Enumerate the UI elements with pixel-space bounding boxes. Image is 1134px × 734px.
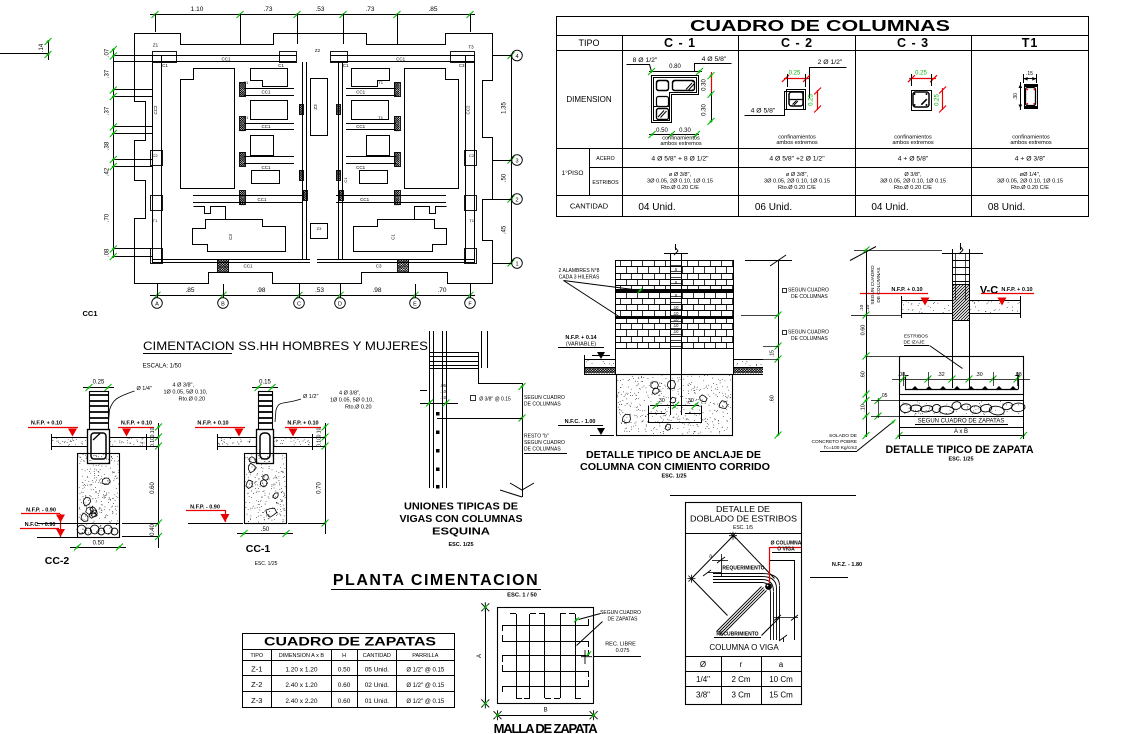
svg-text:Ø 1/2" @ 0.15: Ø 1/2" @ 0.15 — [406, 668, 445, 674]
svg-text:CC1: CC1 — [82, 309, 97, 318]
detail DETALLE TIPICO DE ZAPATA — [812, 243, 1040, 463]
svg-text:MALLA DE ZAPATA: MALLA DE ZAPATA — [494, 721, 599, 734]
svg-text:T1: T1 — [378, 115, 383, 120]
svg-text:CC1: CC1 — [396, 57, 405, 62]
svg-text:O VIGA: O VIGA — [777, 547, 795, 553]
svg-text:1Ø 0.05, 5Ø 0.10,: 1Ø 0.05, 5Ø 0.10, — [330, 398, 374, 404]
svg-text:4: 4 — [515, 54, 518, 60]
svg-text:Z3: Z3 — [313, 104, 318, 110]
svg-text:DE COLUMNAS: DE COLUMNAS — [524, 402, 561, 408]
svg-text:V-C: V-C — [980, 285, 998, 297]
svg-text:2 Ø 1/2": 2 Ø 1/2" — [818, 59, 843, 66]
svg-text:.08: .08 — [105, 248, 111, 257]
svg-text:N.F.P. + 0.10: N.F.P. + 0.10 — [31, 421, 62, 427]
svg-text:Z-1: Z-1 — [251, 665, 262, 674]
svg-text:Rto.Ø 0.20 C/E: Rto.Ø 0.20 C/E — [894, 185, 932, 191]
svg-text:N.F.C. - 1.00: N.F.C. - 1.00 — [565, 419, 596, 425]
svg-text:C1: C1 — [343, 63, 349, 68]
column section T1 drawing — [1010, 71, 1052, 146]
svg-text:02 Unid.: 02 Unid. — [365, 682, 389, 689]
svg-text:N.F.P. + 0.10: N.F.P. + 0.10 — [287, 421, 318, 427]
svg-text:.42: .42 — [105, 167, 111, 176]
svg-text:.60: .60 — [770, 395, 776, 403]
table CUADRO DE ZAPATAS — [242, 634, 455, 708]
header row TIPO / C-1 / C-2 / C-3 / T1 — [578, 36, 1038, 50]
svg-text:4 Ø 5/8": 4 Ø 5/8" — [702, 56, 727, 63]
plan left dimension chain .07 .37 .37 .38 .42 .70 .08 — [105, 46, 153, 260]
svg-text:.10: .10 — [673, 305, 679, 310]
svg-text:C1: C1 — [278, 63, 284, 68]
svg-text:8 Ø 1/2": 8 Ø 1/2" — [633, 57, 658, 64]
zapata footing — [900, 357, 1024, 395]
red leader O COLUMNA O VIGA — [769, 547, 771, 583]
svg-text:.10: .10 — [673, 329, 679, 334]
svg-text:T1: T1 — [153, 218, 158, 223]
far left .14 dimension mark — [0, 38, 52, 60]
cantidad values row — [638, 202, 1025, 213]
svg-text:.50: .50 — [261, 527, 270, 533]
zapata left dimension chain — [866, 250, 868, 437]
svg-text:Z1: Z1 — [153, 43, 159, 48]
svg-text:DE COLUMNAS: DE COLUMNAS — [791, 294, 828, 300]
svg-text:CIMENTACION SS.HH HOMBRES Y: CIMENTACION SS.HH HOMBRES Y MUJERES — [143, 341, 428, 353]
svg-text:0.30: 0.30 — [679, 128, 691, 134]
svg-text:0.10: 0.10 — [317, 427, 323, 437]
title CIMENTACION SS.HH HOMBRES Y MUJERES — [143, 341, 429, 370]
svg-text:.15: .15 — [770, 350, 776, 357]
svg-text:.05: .05 — [881, 393, 888, 399]
svg-text:0.30: 0.30 — [702, 104, 708, 116]
svg-text:DIMENSION A x B: DIMENSION A x B — [279, 653, 325, 659]
svg-text:CANTIDAD: CANTIDAD — [570, 202, 609, 211]
svg-text:3Ø 0.05, 2Ø 0.10, 1Ø 0.15: 3Ø 0.05, 2Ø 0.10, 1Ø 0.15 — [880, 179, 946, 185]
svg-text:.30: .30 — [686, 398, 694, 404]
svg-text:N.F.P. + 0.10: N.F.P. + 0.10 — [891, 287, 922, 293]
svg-text:3Ø 0.05, 2Ø 0.10, 1Ø 0.15: 3Ø 0.05, 2Ø 0.10, 1Ø 0.15 — [764, 179, 830, 185]
svg-text:Ø 3/8" @ 0.15: Ø 3/8" @ 0.15 — [479, 397, 511, 403]
svg-text:CC1: CC1 — [356, 90, 365, 95]
svg-text:DE COLUMNAS: DE COLUMNAS — [791, 336, 828, 342]
svg-text:N.F.P. + 0.10: N.F.P. + 0.10 — [197, 421, 228, 427]
svg-text:Ø 1/4": Ø 1/4" — [137, 386, 152, 392]
title PLANTA CIMENTACION — [331, 572, 541, 599]
svg-text:B: B — [544, 708, 548, 714]
svg-text:0.40: 0.40 — [150, 524, 156, 536]
note N.F.Z. -1.80 — [810, 562, 862, 578]
svg-text:REQUERIMIENTO: REQUERIMIENTO — [722, 566, 764, 572]
svg-text:0.50: 0.50 — [338, 667, 351, 674]
svg-text:4 Ø 5/8" +2 Ø 1/2": 4 Ø 5/8" +2 Ø 1/2" — [769, 156, 825, 163]
svg-text:0.25: 0.25 — [915, 71, 927, 77]
svg-text:UNIONES TIPICAS DE: UNIONES TIPICAS DE — [404, 501, 518, 513]
svg-text:ambos extremos: ambos extremos — [892, 140, 934, 146]
svg-text:CC1: CC1 — [356, 165, 365, 170]
svg-text:Z2: Z2 — [315, 48, 321, 53]
svg-text:ø Ø 3/8",: ø Ø 3/8", — [669, 172, 692, 178]
estribos table O r a — [685, 656, 801, 658]
column section C-2 drawing — [745, 59, 847, 146]
estribo bent stirrup diagram — [692, 536, 734, 579]
svg-text:4 Ø 5/8" + 8 Ø 1/2": 4 Ø 5/8" + 8 Ø 1/2" — [651, 156, 709, 163]
svg-text:.14: .14 — [39, 43, 45, 52]
svg-text:06 Unid.: 06 Unid. — [755, 202, 792, 213]
svg-text:10 Cm: 10 Cm — [769, 675, 793, 684]
svg-text:0.075: 0.075 — [616, 648, 630, 654]
svg-text:a: a — [779, 660, 784, 669]
svg-text:.10: .10 — [673, 317, 679, 322]
svg-text:.73: .73 — [263, 6, 272, 13]
svg-text:08 Unid.: 08 Unid. — [988, 202, 1025, 213]
svg-text:C3: C3 — [459, 63, 465, 68]
svg-text:T3: T3 — [468, 45, 474, 50]
svg-text:0.60: 0.60 — [338, 682, 351, 689]
svg-text:Ø 1/2" @ 0.15: Ø 1/2" @ 0.15 — [406, 683, 445, 689]
svg-text:ambos extremos: ambos extremos — [776, 140, 818, 146]
svg-text:Z-3: Z-3 — [251, 696, 262, 705]
svg-text:TIPO: TIPO — [578, 38, 599, 48]
svg-text:TIPO: TIPO — [250, 653, 264, 659]
svg-text:RESTO "b": RESTO "b" — [524, 434, 549, 440]
svg-text:1/4": 1/4" — [696, 675, 710, 684]
svg-text:0.50: 0.50 — [656, 128, 668, 134]
svg-text:04 Unid.: 04 Unid. — [638, 202, 675, 213]
svg-text:DOBLADO DE ESTRIBOS: DOBLADO DE ESTRIBOS — [690, 515, 797, 524]
svg-text:.38: .38 — [105, 141, 111, 150]
svg-text:CUADRO DE COLUMNAS: CUADRO DE COLUMNAS — [690, 18, 950, 35]
foundation detail CC-1 — [195, 380, 374, 538]
svg-text:N.F.P. - 0.90: N.F.P. - 0.90 — [26, 508, 56, 514]
svg-text:0.70: 0.70 — [317, 482, 323, 494]
svg-text:.37: .37 — [105, 69, 111, 78]
floor slab bands — [584, 359, 616, 361]
svg-text:ESC. 1/25: ESC. 1/25 — [448, 542, 473, 548]
floor plan outer foundation boundary — [135, 34, 493, 284]
svg-text:CC1: CC1 — [360, 197, 369, 202]
svg-text:N.F.Z. - 1.80: N.F.Z. - 1.80 — [832, 562, 862, 568]
svg-text:1.20 x 1.20: 1.20 x 1.20 — [285, 667, 318, 674]
detail DETALLE DE DOBLADO DE ESTRIBOS box — [685, 503, 802, 705]
foundation detail CC-2 — [28, 380, 208, 551]
svg-text:.70: .70 — [105, 213, 111, 222]
svg-text:C - 2: C - 2 — [781, 36, 813, 50]
svg-text:CC2: CC2 — [466, 105, 471, 114]
svg-text:0.60: 0.60 — [861, 325, 867, 336]
svg-text:2 Cm: 2 Cm — [731, 675, 750, 684]
svg-text:C2: C2 — [152, 153, 158, 158]
svg-text:0.50: 0.50 — [93, 541, 105, 547]
estribos values row — [647, 172, 1063, 191]
plan bottom dimension line and grid bubbles A-F — [150, 284, 475, 308]
svg-text:0.25: 0.25 — [789, 71, 801, 77]
svg-text:T1: T1 — [244, 80, 249, 85]
svg-text:CC-2: CC-2 — [45, 555, 70, 567]
svg-text:3/8": 3/8" — [696, 691, 710, 700]
svg-text:ESC. 1/25: ESC. 1/25 — [661, 474, 686, 480]
svg-text:ambos extremos: ambos extremos — [1010, 140, 1052, 146]
svg-text:ACERO: ACERO — [596, 156, 614, 162]
svg-text:CUADRO DE ZAPATAS: CUADRO DE ZAPATAS — [264, 635, 436, 649]
svg-text:ESC. 1/25: ESC. 1/25 — [948, 457, 973, 463]
svg-text:01 Unid.: 01 Unid. — [365, 698, 389, 705]
stray horizontal line below anclaje title — [670, 495, 856, 497]
svg-text:3Ø 0.05, 2Ø 0.10, 1Ø 0.15: 3Ø 0.05, 2Ø 0.10, 1Ø 0.15 — [997, 179, 1063, 185]
svg-text:DE IZAJE: DE IZAJE — [903, 340, 924, 346]
svg-text:ESQUINA: ESQUINA — [432, 526, 491, 538]
svg-text:COLUMNA O VIGA: COLUMNA O VIGA — [709, 643, 779, 652]
svg-text:2 ALAMBRES N°8: 2 ALAMBRES N°8 — [559, 268, 600, 274]
svg-text:RECUBRIMIENTO: RECUBRIMIENTO — [716, 632, 758, 638]
svg-text:C - 3: C - 3 — [897, 36, 929, 50]
svg-text:.85: .85 — [428, 6, 437, 13]
svg-text:REC. LIBRE: REC. LIBRE — [605, 642, 636, 648]
svg-text:SEGUN CUADRO: SEGUN CUADRO — [788, 288, 829, 294]
svg-text:.50: .50 — [502, 173, 508, 182]
svg-text:.10: .10 — [673, 323, 679, 328]
svg-text:.98: .98 — [372, 287, 381, 294]
svg-text:0.80: 0.80 — [669, 64, 681, 70]
svg-text:DE COLUMNAS: DE COLUMNAS — [524, 447, 561, 453]
svg-text:ø Ø 3/8",: ø Ø 3/8", — [786, 172, 809, 178]
plan top dimension line 1.10 .73 .53 .73 .85 — [150, 6, 475, 44]
svg-text:.10: .10 — [859, 304, 865, 311]
svg-text:CC1: CC1 — [261, 90, 270, 95]
svg-text:CC1: CC1 — [257, 197, 266, 202]
svg-text:.10: .10 — [861, 404, 867, 412]
svg-text:0.60: 0.60 — [338, 698, 351, 705]
svg-text:N.F.P. - 0.90: N.F.P. - 0.90 — [190, 505, 220, 511]
svg-text:CC1: CC1 — [243, 264, 252, 269]
floor plan central corridor walls and columns — [293, 62, 361, 259]
svg-text:C3: C3 — [228, 234, 233, 240]
detail MALLA DE ZAPATA — [477, 602, 641, 734]
svg-text:1.35: 1.35 — [502, 102, 508, 114]
svg-text:SEGUN CUADRO DE ZAPATAS: SEGUN CUADRO DE ZAPATAS — [918, 419, 1005, 425]
svg-text:.10: .10 — [673, 311, 679, 316]
svg-text:SEGUN CUADRO: SEGUN CUADRO — [524, 440, 565, 446]
svg-text:ambos extremos: ambos extremos — [660, 141, 702, 147]
svg-text:(VARIABLE): (VARIABLE) — [566, 342, 596, 348]
svg-text:Rto.Ø 0.20: Rto.Ø 0.20 — [179, 397, 206, 403]
svg-text:SOLADO DE: SOLADO DE — [829, 433, 857, 439]
svg-text:A: A — [477, 654, 483, 658]
svg-text:4 Ø 5/8": 4 Ø 5/8" — [751, 108, 776, 115]
svg-text:SEGUN CUADRO: SEGUN CUADRO — [600, 610, 641, 616]
svg-text:.10: .10 — [440, 389, 446, 394]
svg-text:Ø 3/8",: Ø 3/8", — [904, 172, 922, 178]
svg-text:f'c=100 Kg/cm2: f'c=100 Kg/cm2 — [824, 445, 857, 451]
svg-text:C - 1: C - 1 — [664, 36, 696, 50]
svg-text:øØ 1/4",: øØ 1/4", — [1020, 172, 1041, 178]
svg-text:DETALLE TIPICO DE ZAPATA: DETALLE TIPICO DE ZAPATA — [886, 444, 1034, 456]
svg-text:0.10: 0.10 — [150, 427, 156, 437]
svg-text:CONCRETO POBRE: CONCRETO POBRE — [812, 439, 858, 445]
table CUADRO DE COLUMNAS frame — [556, 17, 1089, 217]
svg-text:4 + Ø 5/8": 4 + Ø 5/8" — [898, 156, 929, 163]
svg-text:.08: .08 — [898, 372, 905, 378]
svg-text:.53: .53 — [315, 6, 324, 13]
svg-text:1: 1 — [515, 261, 518, 267]
svg-text:C1: C1 — [391, 234, 396, 240]
svg-text:0.25: 0.25 — [809, 94, 815, 106]
svg-text:Rto.Ø 0.20 C/E: Rto.Ø 0.20 C/E — [1011, 185, 1049, 191]
detail DETALLE TIPICO DE ANCLAJE brick wall — [558, 244, 876, 480]
svg-text:CC-1: CC-1 — [246, 543, 271, 555]
svg-text:1°PISO: 1°PISO — [562, 169, 584, 177]
svg-text:.30: .30 — [1013, 93, 1019, 100]
svg-text:C: C — [297, 301, 301, 307]
svg-text:CC2: CC2 — [153, 105, 158, 114]
acero values row — [651, 156, 1045, 163]
svg-text:.10: .10 — [440, 395, 446, 400]
svg-text:ESTRIBOS: ESTRIBOS — [904, 334, 928, 340]
svg-text:N.F.P. + 0.14: N.F.P. + 0.14 — [565, 335, 597, 341]
svg-text:N.F.C. - 0.90: N.F.C. - 0.90 — [25, 522, 56, 528]
svg-text:COLUMNA CON CIMIENTO CORRIDO: COLUMNA CON CIMIENTO CORRIDO — [580, 461, 770, 473]
svg-text:A x B: A x B — [954, 429, 968, 435]
svg-text:ESCALA: 1/50: ESCALA: 1/50 — [143, 364, 182, 370]
svg-text:.37: .37 — [105, 106, 111, 115]
svg-text:4 Ø 3/8",: 4 Ø 3/8", — [173, 383, 195, 389]
svg-text:SEGUN CUADRO: SEGUN CUADRO — [870, 265, 876, 304]
svg-text:CC1: CC1 — [261, 165, 270, 170]
svg-text:3: 3 — [515, 158, 518, 164]
svg-text:DETALLE TIPICO DE ANCLAJE DE: DETALLE TIPICO DE ANCLAJE DE — [586, 449, 761, 461]
svg-text:VIGAS CON COLUMNAS: VIGAS CON COLUMNAS — [400, 513, 523, 525]
svg-text:CC1: CC1 — [356, 124, 365, 129]
svg-text:E: E — [413, 301, 417, 307]
svg-text:04 Unid.: 04 Unid. — [871, 202, 908, 213]
svg-text:.73: .73 — [365, 6, 374, 13]
svg-text:A: A — [155, 301, 159, 307]
svg-text:2.40 x 2.20: 2.40 x 2.20 — [285, 698, 318, 705]
svg-text:.08: .08 — [1014, 372, 1021, 378]
detail UNIONES TIPICAS DE VIGAS CON COLUMNAS ESQUINA — [400, 331, 568, 548]
svg-text:CC1: CC1 — [221, 57, 230, 62]
svg-text:2: 2 — [515, 197, 518, 203]
svg-text:.07: .07 — [105, 48, 111, 57]
svg-text:0.25: 0.25 — [93, 380, 105, 386]
svg-text:N.F.P. + 0.10: N.F.P. + 0.10 — [121, 421, 152, 427]
svg-text:0.10: 0.10 — [317, 437, 323, 447]
svg-text:B: B — [221, 301, 225, 307]
svg-text:T1: T1 — [469, 218, 474, 223]
svg-text:Ø: Ø — [700, 660, 706, 669]
svg-text:Ø 1/2": Ø 1/2" — [303, 394, 318, 400]
svg-text:.98: .98 — [256, 287, 265, 294]
svg-text:T1: T1 — [1022, 36, 1039, 50]
svg-text:.10: .10 — [865, 304, 871, 311]
svg-text:0.30: 0.30 — [702, 79, 708, 91]
svg-text:DETALLE DE: DETALLE DE — [716, 505, 770, 514]
svg-text:15 Cm: 15 Cm — [769, 691, 793, 700]
svg-text:.85: .85 — [185, 287, 194, 294]
svg-text:.32: .32 — [937, 372, 944, 378]
svg-text:C2: C2 — [469, 153, 475, 158]
svg-text:r: r — [740, 660, 743, 669]
svg-text:CADA 3 HILERAS: CADA 3 HILERAS — [559, 275, 600, 281]
svg-text:ESC. 1/25: ESC. 1/25 — [255, 561, 278, 567]
svg-text:.30: .30 — [975, 372, 982, 378]
svg-text:3Ø 0.05, 2Ø 0.10, 1Ø 0.15: 3Ø 0.05, 2Ø 0.10, 1Ø 0.15 — [647, 179, 713, 185]
svg-text:CC1: CC1 — [261, 124, 270, 129]
svg-text:T1: T1 — [244, 115, 249, 120]
svg-text:05 Unid.: 05 Unid. — [365, 667, 389, 674]
svg-text:.45: .45 — [502, 225, 508, 234]
svg-text:0.60: 0.60 — [150, 482, 156, 494]
svg-text:4 + Ø 3/8": 4 + Ø 3/8" — [1015, 156, 1046, 163]
svg-text:4 Ø 3/8",: 4 Ø 3/8", — [339, 391, 361, 397]
svg-text:.53: .53 — [315, 287, 324, 294]
svg-text:DIMENSION: DIMENSION — [566, 95, 612, 104]
anclaje right dimension chain — [778, 260, 780, 435]
row label 1 PISO / ACERO / ESTRIBOS — [562, 156, 620, 186]
svg-text:a: a — [709, 554, 712, 560]
svg-text:2.40 x 1.20: 2.40 x 1.20 — [285, 682, 318, 689]
svg-text:N.F.P. + 0.10: N.F.P. + 0.10 — [1001, 287, 1032, 293]
svg-text:0.25: 0.25 — [935, 94, 941, 106]
svg-text:SEGUN CUADRO: SEGUN CUADRO — [788, 330, 829, 336]
svg-text:C1: C1 — [162, 63, 168, 68]
svg-text:.15: .15 — [1026, 71, 1033, 77]
svg-text:CANTIDAD: CANTIDAD — [363, 653, 391, 659]
column section C-1 drawing — [627, 56, 732, 147]
svg-text:ESTRIBOS: ESTRIBOS — [592, 180, 619, 186]
svg-text:Z-2: Z-2 — [251, 680, 262, 689]
svg-text:C1: C1 — [343, 177, 348, 183]
column section C-3 drawing — [892, 71, 946, 147]
svg-text:ESC. 1/5: ESC. 1/5 — [733, 525, 753, 531]
svg-text:1.10: 1.10 — [191, 6, 204, 13]
svg-text:Ø 1/2" @ 0.15: Ø 1/2" @ 0.15 — [406, 699, 445, 705]
svg-text:.60: .60 — [861, 371, 867, 379]
plan right dimension line and grid bubbles 4 3 2 1 — [492, 50, 522, 268]
svg-text:ESC. 1 / 50: ESC. 1 / 50 — [507, 593, 537, 599]
svg-text:H: H — [342, 653, 346, 659]
svg-text:PARRILLA: PARRILLA — [412, 653, 439, 659]
svg-text:SEGUN CUADRO: SEGUN CUADRO — [524, 395, 565, 401]
svg-text:D: D — [338, 301, 342, 307]
svg-text:T1: T1 — [378, 80, 383, 85]
svg-text:DE COLUMNAS: DE COLUMNAS — [876, 267, 882, 302]
svg-text:DE ZAPATAS: DE ZAPATAS — [607, 617, 638, 623]
gravel sub-base band — [900, 401, 1024, 417]
cimiento corrido concrete mass — [617, 375, 733, 436]
svg-text:.05: .05 — [440, 383, 446, 388]
svg-text:Rto.Ø 0.20: Rto.Ø 0.20 — [345, 405, 372, 411]
svg-text:3 Cm: 3 Cm — [731, 691, 750, 700]
svg-text:.70: .70 — [437, 287, 446, 294]
svg-text:C3: C3 — [376, 264, 382, 269]
svg-text:1Ø 0.05, 5Ø 0.10,: 1Ø 0.05, 5Ø 0.10, — [164, 390, 208, 396]
svg-text:Z3: Z3 — [317, 226, 322, 231]
svg-text:Rto.Ø 0.20 C/E: Rto.Ø 0.20 C/E — [661, 185, 699, 191]
svg-text:Rto.Ø 0.20 C/E: Rto.Ø 0.20 C/E — [778, 185, 816, 191]
svg-text:0.10: 0.10 — [150, 437, 156, 447]
svg-text:PLANTA CIMENTACION: PLANTA CIMENTACION — [333, 572, 539, 589]
